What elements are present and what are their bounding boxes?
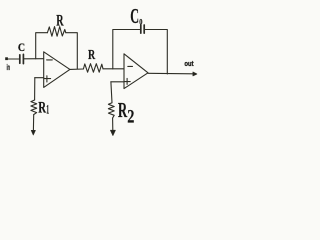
svg-text:R: R bbox=[118, 98, 128, 122]
svg-text:R: R bbox=[88, 48, 96, 63]
svg-text:R: R bbox=[38, 100, 46, 117]
svg-text:2: 2 bbox=[127, 107, 134, 128]
svg-text:C: C bbox=[18, 42, 25, 54]
svg-text:out: out bbox=[184, 61, 194, 68]
svg-text:C: C bbox=[130, 4, 139, 28]
svg-text:0: 0 bbox=[139, 17, 142, 26]
svg-text:in: in bbox=[7, 63, 10, 72]
svg-text:1: 1 bbox=[46, 103, 49, 117]
svg-text:R: R bbox=[56, 13, 64, 30]
